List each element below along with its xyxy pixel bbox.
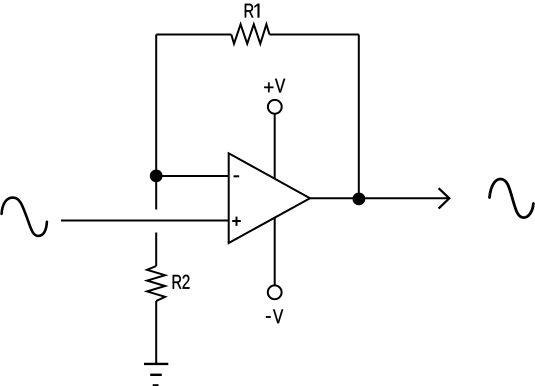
label -V <box>266 309 283 323</box>
arrowhead output <box>439 188 450 208</box>
input source sine squiggle <box>2 198 47 236</box>
op-amp inverting pin marker (-) <box>234 175 240 177</box>
ground <box>144 364 168 386</box>
op-amp non-inverting pin marker (+) <box>232 217 241 226</box>
op-amp U1 <box>229 153 310 243</box>
label R2 <box>173 275 190 289</box>
wire: output <box>310 197 448 199</box>
wire: R2 to ground <box>155 301 157 364</box>
label +V <box>264 79 285 93</box>
wire: non-inverting input <box>61 220 229 222</box>
resistor R2 <box>147 266 165 301</box>
junction dot: output node <box>353 193 366 206</box>
wire: top feedback right segment <box>270 34 359 36</box>
resistor R1 <box>231 24 269 44</box>
wire: +V supply lead <box>274 114 276 179</box>
wire: left vertical lower segment to R2 (crossover break) <box>155 233 157 267</box>
terminal circle +V <box>268 100 282 114</box>
terminal circle -V <box>268 285 282 299</box>
output sine squiggle <box>490 179 534 218</box>
junction dot: inverting input node <box>150 170 163 183</box>
wire: inverting node to op-amp minus input <box>156 175 229 177</box>
label R1 <box>245 4 260 18</box>
wire: right vertical feedback to output node <box>358 35 360 199</box>
wire: left vertical from top wire down through inverting node <box>155 35 157 210</box>
wire: -V supply lead <box>274 218 276 286</box>
wire: top feedback left segment <box>156 34 231 36</box>
